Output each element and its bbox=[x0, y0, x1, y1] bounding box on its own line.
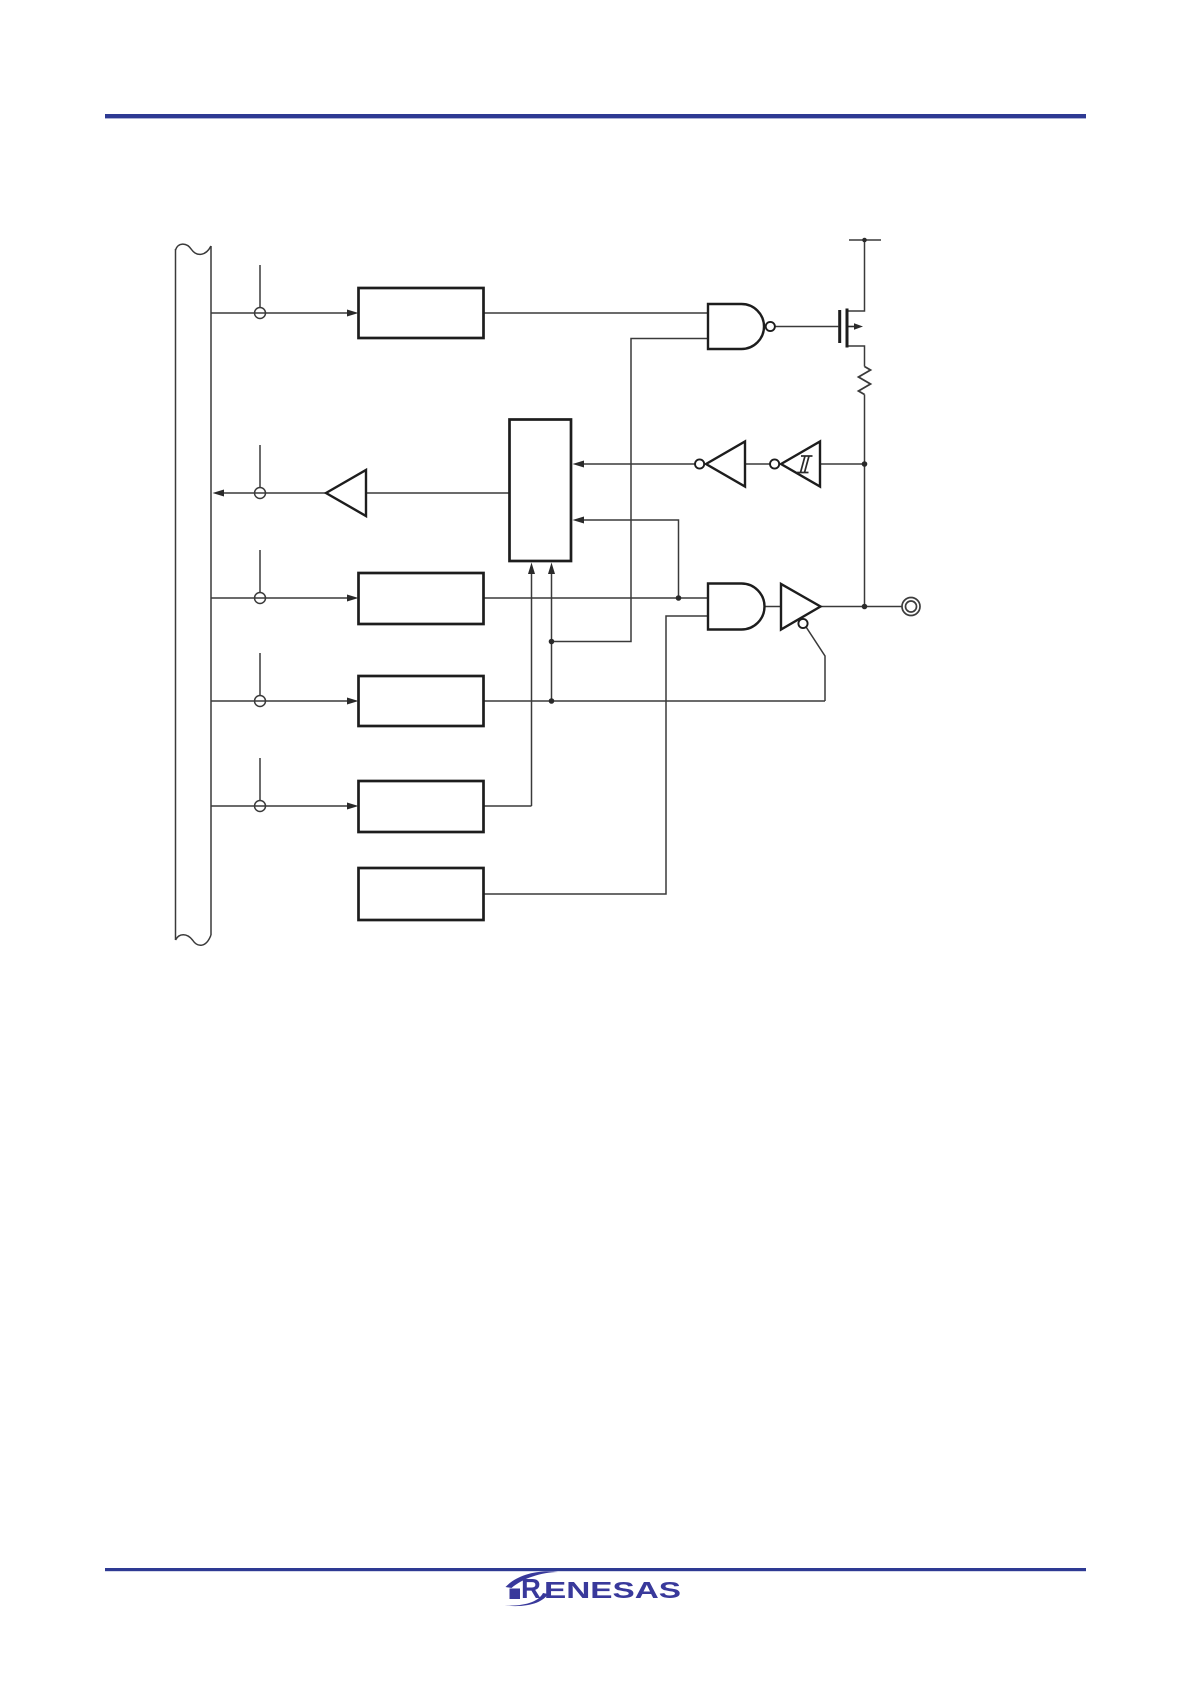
svg-text:R: R bbox=[521, 1573, 541, 1604]
svg-text:ENESAS: ENESAS bbox=[544, 1577, 681, 1603]
